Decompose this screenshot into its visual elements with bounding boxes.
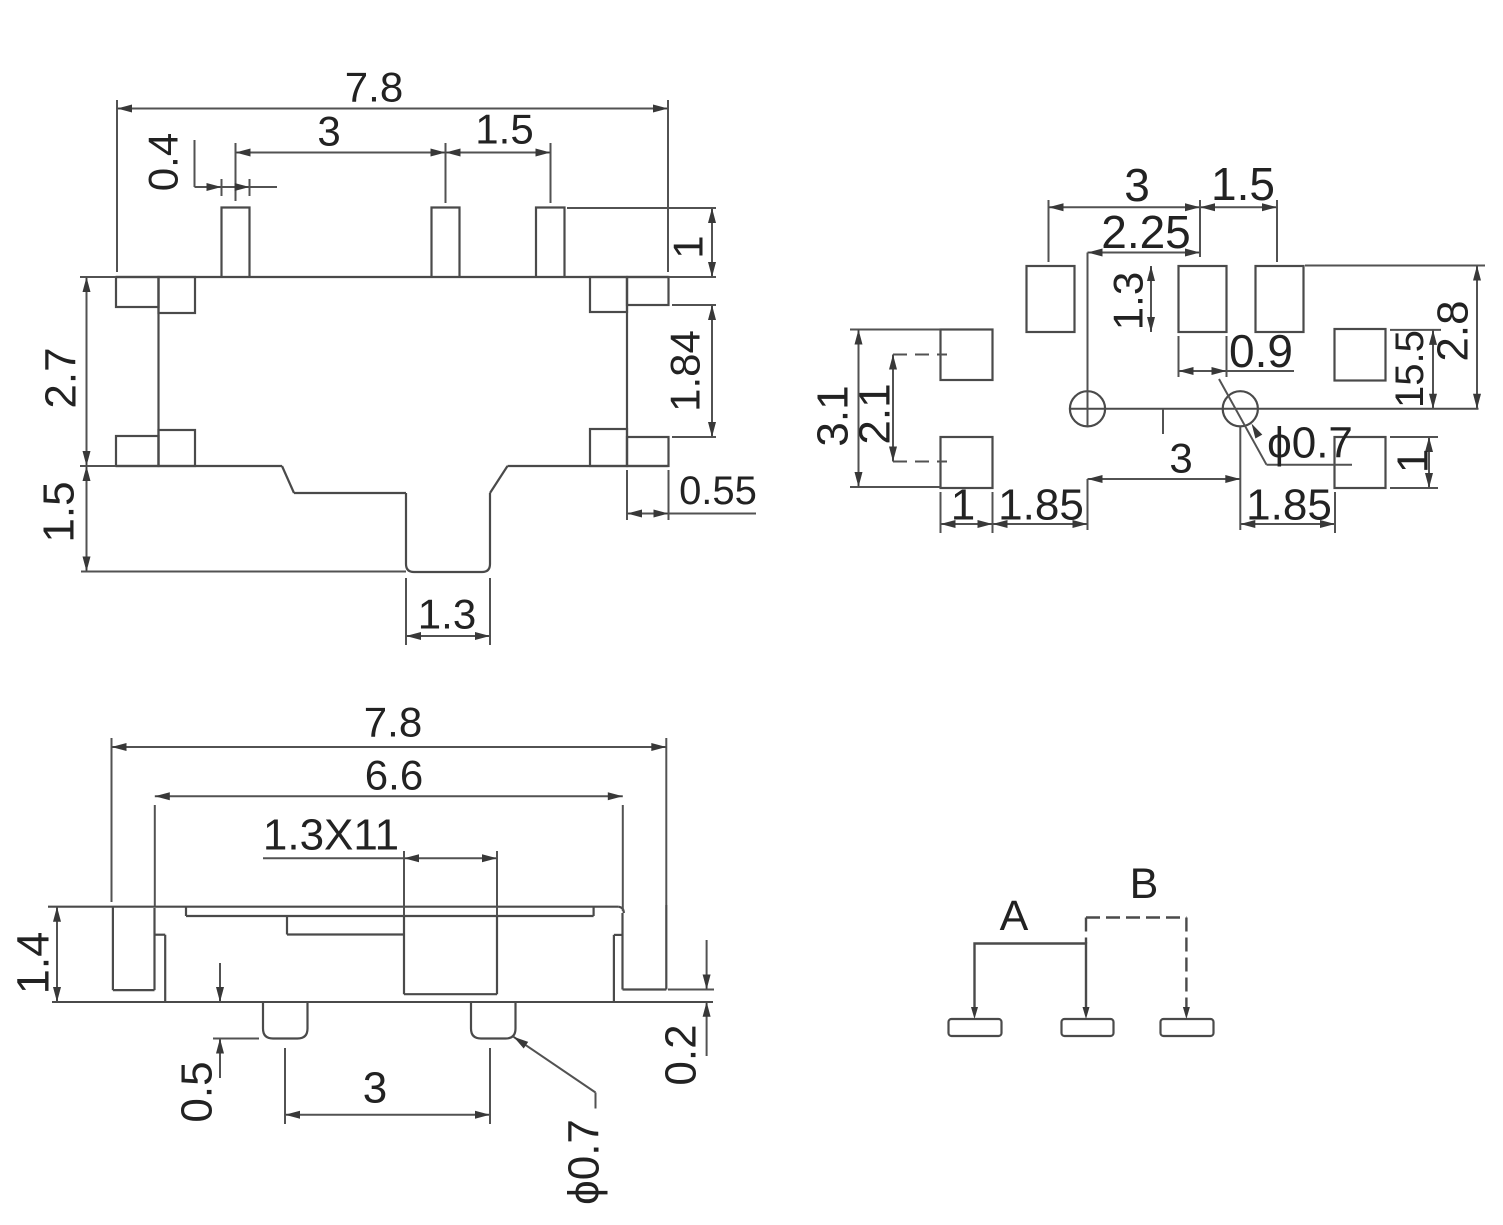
svg-text:0.5: 0.5 [173,1061,222,1122]
svg-text:1.3: 1.3 [1105,272,1152,330]
svg-text:1: 1 [1389,449,1438,473]
svg-text:0.9: 0.9 [1229,325,1293,377]
svg-text:ϕ0.7: ϕ0.7 [560,1119,609,1205]
svg-text:1.3: 1.3 [418,591,476,638]
svg-text:0.55: 0.55 [679,469,757,513]
svg-text:1: 1 [951,481,975,530]
svg-text:0.4: 0.4 [140,133,187,191]
svg-text:2.25: 2.25 [1101,206,1191,258]
svg-text:ϕ0.7: ϕ0.7 [1267,419,1353,468]
svg-text:7.8: 7.8 [345,64,403,111]
svg-text:1.85: 1.85 [1246,481,1332,530]
svg-text:3: 3 [1124,159,1150,211]
svg-text:1: 1 [665,235,712,258]
svg-text:15.5: 15.5 [1388,330,1432,408]
svg-text:1.3X11: 1.3X11 [263,811,399,860]
svg-text:2.1: 2.1 [851,383,900,444]
svg-text:3: 3 [1169,435,1192,482]
svg-text:0.2: 0.2 [657,1024,706,1085]
svg-text:B: B [1130,860,1159,908]
svg-text:3: 3 [317,108,340,155]
svg-text:1.5: 1.5 [1211,158,1275,210]
svg-text:1.5: 1.5 [475,106,533,153]
svg-text:6.6: 6.6 [365,752,423,799]
svg-text:7.8: 7.8 [364,699,422,746]
svg-text:A: A [1000,892,1029,940]
svg-text:3: 3 [363,1064,387,1113]
svg-text:2.8: 2.8 [1429,300,1478,361]
svg-text:1.4: 1.4 [8,932,59,995]
svg-text:1.84: 1.84 [662,330,709,412]
svg-text:1.85: 1.85 [998,481,1084,530]
svg-text:2.7: 2.7 [37,347,86,408]
svg-text:1.5: 1.5 [35,481,84,542]
